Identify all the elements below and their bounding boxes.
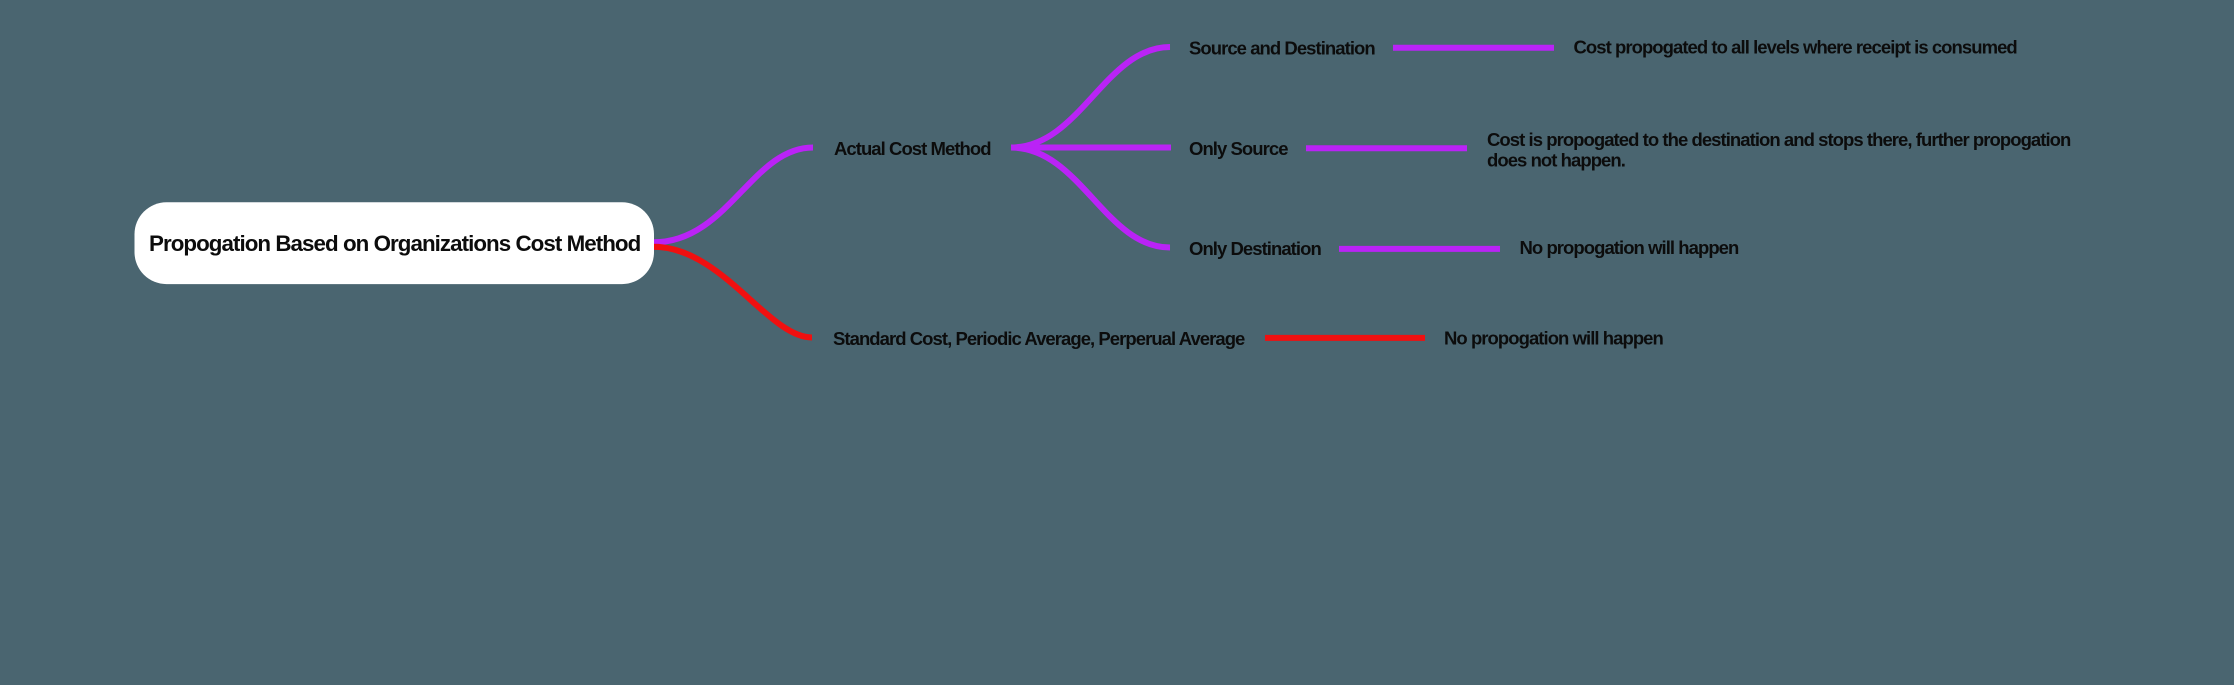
link root to Actual Cost Method	[654, 148, 814, 243]
svg-text:Standard Cost, Periodic Averag: Standard Cost, Periodic Average, Perperu…	[833, 328, 1245, 349]
svg-text:No propogation will happen: No propogation will happen	[1520, 237, 1740, 258]
svg-text:Actual Cost Method: Actual Cost Method	[834, 138, 991, 159]
svg-text:Only Destination: Only Destination	[1189, 238, 1321, 259]
svg-text:No propogation will happen: No propogation will happen	[1444, 327, 1664, 348]
svg-text:Propogation Based on Organizat: Propogation Based on Organizations Cost …	[149, 231, 641, 256]
link Only Destination to description	[1339, 246, 1500, 252]
link Standard Cost branch to description	[1265, 335, 1425, 341]
link Only Source to description	[1306, 145, 1467, 151]
svg-text:Cost propogated to all levels: Cost propogated to all levels where rece…	[1574, 37, 2018, 58]
svg-text:does not happen.: does not happen.	[1487, 150, 1625, 171]
svg-text:Only Source: Only Source	[1189, 138, 1288, 159]
link Actual Cost Method to Only Destination	[1011, 148, 1170, 248]
svg-text:Cost is propogated to the dest: Cost is propogated to the destination an…	[1487, 129, 2071, 150]
link Actual Cost Method to Only Source	[1011, 145, 1171, 151]
link Source and Destination to description	[1393, 45, 1554, 51]
link Actual Cost Method to Source and Destination	[1011, 47, 1170, 148]
svg-text:Source and Destination: Source and Destination	[1189, 37, 1375, 58]
node root bubble	[135, 202, 655, 284]
link root to Standard Cost branch	[654, 247, 813, 338]
